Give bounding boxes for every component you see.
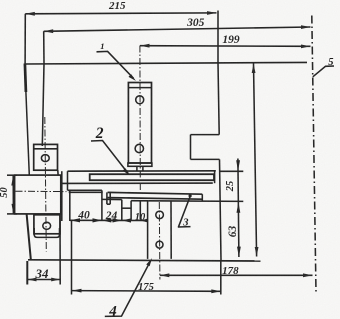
bracket block horizontal centerline [16, 190, 67, 192]
body notch left [190, 135, 192, 160]
dim 305 arrows [44, 25, 311, 33]
step block top line a [68, 189, 102, 191]
step block right edge [101, 190, 103, 220]
lower clamp block rounded bottom [34, 228, 59, 237]
table plate left cap inner [67, 171, 69, 190]
dim 175 right extension [220, 261, 222, 295]
dim 34 left extension [26, 261, 28, 285]
lower plate right cap [201, 194, 203, 200]
part 1 body [128, 83, 151, 164]
lower clamp hole [43, 222, 51, 229]
body right edge lower [220, 159, 222, 260]
part 1 hole upper [136, 96, 144, 104]
top edge of body with extension to axis 5 [25, 62, 307, 64]
dim 199 line [140, 45, 311, 48]
dim 178 line [160, 274, 313, 276]
leader 2 [91, 141, 128, 174]
floor line left [102, 198, 122, 200]
floor line mid [131, 200, 148, 202]
part 1 hole lower [135, 144, 143, 152]
overall height dim line [254, 64, 257, 257]
extension line plate top right [220, 170, 244, 172]
dim 50 line [12, 175, 14, 214]
left arm left edge upper (heavy) [25, 64, 26, 93]
slide bar 2 [90, 174, 214, 180]
column centerline [158, 202, 161, 280]
body notch bottom with extension for dim 25 [191, 158, 220, 160]
groove bottom [122, 207, 131, 209]
column hole lower [156, 241, 163, 248]
lower clamp block [34, 215, 60, 234]
step block top line b [69, 191, 103, 193]
floor line right with extension for dim 25 [148, 200, 243, 203]
left arm right edge upper [42, 64, 44, 146]
dim 175 line [72, 290, 221, 293]
body notch top [191, 134, 220, 136]
dim 305 line [44, 27, 311, 31]
dim 215 line [25, 12, 216, 15]
dim 215 arrows [25, 11, 216, 16]
column part 4 left edge [147, 201, 149, 259]
chain dim line 40 24 10 [70, 219, 147, 221]
dim 25 arrows [236, 160, 240, 213]
axis line 5 (dash-dot vertical right) [312, 16, 316, 293]
upper clamp block [34, 144, 58, 170]
part 1 flange [128, 163, 152, 166]
dim 175 left extension [71, 221, 73, 295]
leader 3 underline [178, 226, 191, 228]
dim 305 left extension [43, 31, 45, 63]
part 1 top cap line [129, 87, 152, 89]
left arm vertical centerline [45, 117, 47, 252]
dim 50 extensions [7, 174, 17, 176]
groove right wall extension [130, 201, 132, 220]
upper clamp right connector [57, 170, 59, 175]
lower plate top edge [108, 192, 203, 194]
part 1 centerline [139, 46, 141, 191]
bracket block 50 [15, 175, 61, 214]
upper clamp hole [41, 155, 49, 162]
upper clamp block lip [34, 148, 58, 150]
lower plate bottom edge [108, 198, 203, 200]
leader 1 [97, 51, 134, 78]
table plate left cap outer [61, 171, 63, 221]
overall height dim arrows [252, 64, 259, 257]
extension inner left [69, 191, 71, 222]
leader 5 [313, 66, 334, 77]
part 1 stem [136, 166, 138, 171]
chain dim arrows [70, 218, 148, 222]
dim 175 arrows [72, 289, 221, 294]
dim 215 right extension [217, 11, 219, 64]
extension for dim 10 [139, 201, 141, 220]
leader 3 [179, 197, 191, 227]
dim 178 arrows [160, 273, 313, 277]
dim 34 arrows [28, 278, 61, 282]
dim 50 arrows [11, 176, 15, 214]
groove left wall [121, 200, 123, 221]
table plate bottom edge [61, 182, 213, 184]
dim 199 arrows [140, 44, 311, 49]
left arm left edge lower [27, 214, 31, 260]
lower plate left cap [106, 192, 108, 204]
dim 34 line [28, 279, 61, 281]
leader 4 [105, 260, 151, 316]
dim 34 right extension [59, 214, 61, 285]
column hole upper [156, 211, 164, 219]
table plate right cap [214, 171, 216, 183]
dim 63 arrow [237, 247, 241, 257]
body bottom edge with extension [28, 260, 261, 261]
table plate top edge [68, 170, 216, 172]
column part 4 right edge [170, 201, 172, 259]
dim 25 and 63 line [238, 159, 239, 258]
body right edge upper [218, 63, 219, 135]
dim 215 left extension [24, 14, 26, 64]
